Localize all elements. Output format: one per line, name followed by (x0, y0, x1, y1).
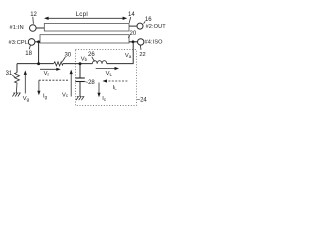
svg-text:Vg: Vg (23, 96, 30, 102)
wire coupled line to port4 (129, 41, 138, 43)
svg-text:30: 30 (65, 53, 72, 59)
junction node at port3 wire (37, 40, 40, 43)
wire port1 to main line (36, 27, 44, 29)
svg-text:Vc: Vc (62, 92, 69, 98)
resistor R30 (zigzag) (54, 62, 63, 66)
port P2 circle (137, 23, 143, 29)
svg-text:~24: ~24 (137, 98, 148, 104)
svg-text:12: 12 (30, 12, 37, 18)
port P3 circle (28, 39, 35, 46)
pin label 16 (144, 17, 153, 24)
main line (coupler top strip) (44, 24, 129, 32)
coupled line (coupler bottom strip) (40, 35, 129, 43)
current arrow Ig (dashed path with down arrow) (37, 80, 68, 95)
svg-text:Vr: Vr (44, 71, 50, 77)
wire: bottom horizontal rail y=64 (17, 63, 54, 65)
svg-text:18: 18 (25, 51, 32, 57)
svg-text:#4:ISO: #4:ISO (145, 40, 164, 46)
junction node at capacitor branch (79, 62, 82, 65)
wire: port4 node down (132, 42, 134, 64)
svg-text:Ic: Ic (102, 96, 107, 102)
svg-text:#1:IN: #1:IN (10, 25, 24, 31)
svg-text:20: 20 (130, 31, 137, 37)
svg-text:14: 14 (128, 12, 135, 18)
wire: port3 node down (38, 42, 40, 64)
svg-text:Lcpl: Lcpl (76, 11, 88, 18)
dashed box 24 (termination circuit) (75, 50, 136, 106)
current arrow Ic (down) (97, 83, 100, 98)
svg-text:Vb: Vb (81, 56, 88, 62)
voltage arrow Vg (24, 70, 27, 93)
wire port3 to coupled line (35, 41, 40, 43)
svg-text:Ig: Ig (43, 94, 48, 100)
current arrow IL (dashed, pointing left) (103, 79, 128, 82)
svg-text:VL: VL (106, 71, 113, 77)
dimension arrow Lcpl (44, 17, 127, 20)
capacitor C28 (75, 64, 84, 97)
svg-text:~28: ~28 (85, 80, 96, 86)
svg-text:Va: Va (125, 53, 132, 59)
label 26 with leader (88, 52, 95, 61)
voltage arrow Vr (40, 68, 61, 71)
inductor L26 (coil) (92, 61, 106, 64)
svg-text:#3:CPL: #3:CPL (9, 40, 29, 46)
voltage arrow Vc (70, 70, 73, 97)
pin label 18 (25, 45, 32, 57)
label 30 with leader (62, 53, 72, 62)
port P4 circle (138, 39, 144, 45)
wire main line to port2 (129, 25, 137, 27)
ground under R31 (12, 93, 20, 97)
svg-text:IL: IL (113, 85, 118, 91)
label 31 with leader (6, 71, 15, 77)
ground under C28 (76, 97, 84, 101)
svg-text:31: 31 (6, 71, 13, 77)
pin label 22 (139, 45, 145, 58)
svg-text:22: 22 (139, 52, 145, 58)
junction node at left rail (37, 62, 40, 65)
junction node at port4 wire (132, 40, 135, 43)
voltage arrow VL (96, 67, 119, 70)
pin label 12 (30, 12, 37, 24)
pin label 14 (128, 12, 135, 23)
svg-text:#2:OUT: #2:OUT (146, 24, 167, 30)
svg-text:16: 16 (145, 17, 152, 23)
port P1 circle (30, 25, 37, 32)
resistor R31 (vertical zigzag) (15, 64, 20, 93)
